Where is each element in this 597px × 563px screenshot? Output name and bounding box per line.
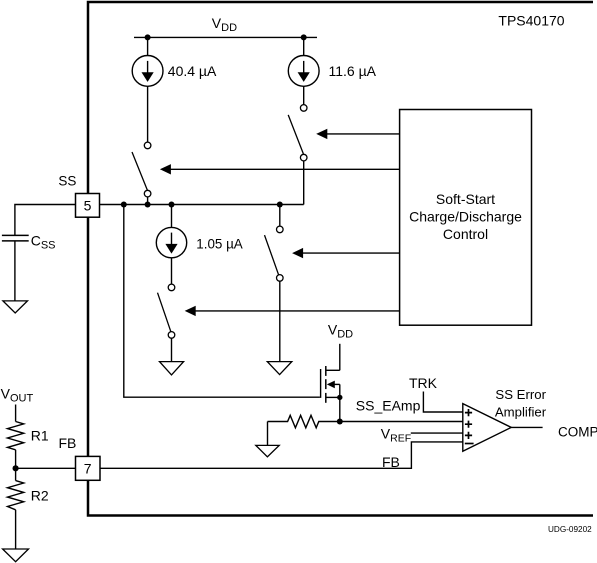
op-amp U1 SS Error Amplifier [463, 404, 511, 452]
MOSFET Q1 [321, 366, 343, 403]
wire I1 to SW1 [147, 86, 149, 142]
wire I3 to SW3 [171, 258, 173, 284]
control line 2 with arrow to SW1 [160, 164, 400, 174]
control line 3 with arrow to SW4 [292, 248, 400, 258]
svg-text:40.4 µA: 40.4 µA [168, 63, 217, 79]
wire resistor to ground [267, 422, 269, 446]
resistor R3 [268, 415, 340, 428]
label Soft-Start Charge/Discharge Control [409, 191, 522, 242]
control box [400, 110, 532, 326]
switch SW3 [158, 284, 175, 361]
current source I1 [132, 56, 163, 87]
svg-text:Control: Control [443, 226, 488, 242]
plus input mark 1 [465, 409, 472, 416]
resistor R1 [8, 422, 24, 450]
VDD top rail wire [134, 36, 317, 38]
wire SS to Q1 gate [124, 205, 320, 398]
svg-text:1.05 µA: 1.05 µA [196, 237, 242, 252]
wire FB to amplifier [100, 442, 463, 468]
wire SW4 to ground [279, 281, 281, 361]
node dot rail B [145, 202, 151, 208]
control line 4 with arrow to SW3 [185, 306, 400, 316]
node dot VDD-I1 [145, 34, 151, 40]
pin box 5 [76, 194, 100, 218]
svg-text:Charge/Discharge: Charge/Discharge [409, 208, 522, 224]
svg-text:FB: FB [382, 454, 400, 470]
svg-text:TRK: TRK [409, 375, 438, 391]
ground (resistor) [256, 445, 279, 456]
switch SW4 [265, 226, 284, 281]
ground (SW3) [160, 362, 184, 375]
svg-text:7: 7 [84, 460, 92, 476]
wire node to amplifier [340, 421, 463, 423]
wire R2 to ground [15, 510, 17, 549]
node dot rail D [277, 202, 283, 208]
node dot rail C [169, 202, 175, 208]
wire VDD to I1 [147, 37, 149, 55]
node dot FB [13, 465, 19, 471]
SS rail wire [100, 204, 304, 206]
svg-text:TPS40170: TPS40170 [498, 13, 564, 29]
node dot SS_EAmp [337, 419, 343, 425]
control line 1 with arrow to SW2 [316, 129, 399, 139]
wire TRK to amplifier [423, 392, 462, 413]
svg-text:R2: R2 [31, 488, 49, 504]
node dot VDD-I2 [301, 34, 307, 40]
svg-text:Amplifier: Amplifier [495, 404, 547, 419]
current source I3 [156, 227, 186, 257]
wire VOUT to R1 [15, 405, 17, 422]
wire VREF to amplifier [411, 432, 463, 434]
svg-text:FB: FB [59, 435, 77, 451]
ground (CSS) [3, 301, 28, 313]
ground (SW4) [267, 362, 292, 375]
ground (R2) [3, 549, 29, 562]
plus input mark 3 [465, 432, 472, 439]
wire rail to SW4 [279, 205, 281, 227]
wire rail to I3 [171, 205, 173, 228]
svg-text:Soft-Start: Soft-Start [436, 191, 495, 207]
label SS Error Amplifier [495, 387, 547, 419]
switch SW1 [132, 142, 151, 204]
svg-text:11.6 µA: 11.6 µA [329, 63, 377, 79]
wire CSS to ground [14, 241, 16, 301]
svg-text:SS Error: SS Error [495, 387, 546, 402]
current source I2 [288, 56, 319, 87]
minus input mark [465, 443, 474, 445]
plus input mark 2 [465, 421, 472, 428]
svg-text:R1: R1 [31, 428, 49, 444]
IC boundary box (top, left, bottom) [88, 2, 593, 516]
svg-text:SS_EAmp: SS_EAmp [356, 398, 421, 414]
amplifier output wire [511, 426, 542, 428]
wire R1 to FB node [15, 450, 17, 469]
wire VDD to Q1 drain [339, 344, 341, 371]
wire VDD to I2 [303, 37, 305, 55]
svg-text:COMP: COMP [558, 425, 597, 440]
pin box 7 [76, 456, 101, 480]
wire FB node to R2 [15, 468, 17, 480]
resistor R2 [8, 481, 24, 510]
wire Q1 source to node [339, 397, 341, 421]
capacitor CSS [2, 235, 29, 241]
svg-text:5: 5 [84, 197, 92, 213]
switch SW2 [288, 105, 307, 205]
wire FB node to pin 7 [16, 467, 76, 469]
wire SS pin to CSS [15, 205, 76, 236]
svg-text:SS: SS [58, 173, 76, 188]
node dot rail A [121, 202, 127, 208]
svg-text:UDG-09202: UDG-09202 [548, 525, 592, 534]
wire I2 to SW2 [303, 86, 305, 104]
